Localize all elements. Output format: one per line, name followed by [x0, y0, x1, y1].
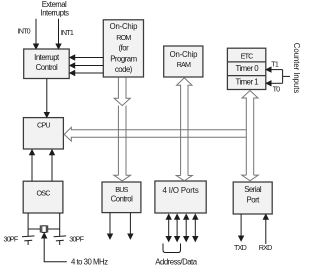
wire ROM to Interrupt Control arrow 1 — [70, 55, 103, 60]
svg-text:RAM: RAM — [177, 60, 191, 69]
svg-text:4 to 30 MHz: 4 to 30 MHz — [71, 258, 108, 267]
wire I/O port double arrow 3 — [184, 215, 189, 242]
svg-text:Control: Control — [36, 63, 58, 72]
svg-text:INT1: INT1 — [61, 28, 74, 37]
svg-text:30PF: 30PF — [69, 234, 84, 243]
svg-text:ROM: ROM — [116, 33, 131, 42]
svg-text:ETC: ETC — [241, 51, 254, 60]
wire INT0 arrow into Interrupt Control — [34, 19, 39, 49]
svg-text:OSC: OSC — [36, 189, 50, 198]
svg-text:Interrupts: Interrupts — [41, 8, 70, 17]
capacitor C1 left 30PF — [22, 229, 35, 245]
svg-text:RXD: RXD — [259, 243, 272, 252]
svg-text:Address/Data: Address/Data — [155, 257, 197, 266]
svg-text:code): code) — [115, 65, 133, 74]
svg-text:(for: (for — [119, 44, 130, 53]
block On-Chip RAM — [164, 46, 203, 77]
block BUS Control — [102, 182, 141, 213]
wire OSC left leg down — [27, 213, 29, 229]
bus hollow arrowhead down into 4 I/O Ports — [176, 176, 192, 181]
svg-text:INT0: INT0 — [18, 26, 31, 35]
svg-text:Program: Program — [110, 54, 136, 63]
svg-text:BUS: BUS — [115, 185, 128, 194]
block OSC — [23, 181, 63, 213]
svg-text:On-Chip: On-Chip — [170, 50, 198, 59]
bus hollow arrow into CPU (horizontal data bus) — [64, 127, 246, 141]
wire OSC right leg down — [59, 213, 61, 229]
label External Interrupts — [41, 0, 70, 17]
bus hollow arrowhead into BUS Control — [114, 175, 131, 181]
wire I/O port double arrow 2 — [175, 215, 180, 242]
bus hollow arrowhead down into Serial Port — [242, 175, 258, 181]
wire RXD input arrow — [263, 215, 268, 245]
svg-text:Control: Control — [111, 195, 133, 204]
wire BUS Control output arrow left — [108, 213, 113, 239]
wire counter-input bracket — [283, 70, 290, 84]
wire OSC to CPU arrow left — [30, 150, 35, 181]
wire BUS Control output arrow right — [128, 213, 133, 239]
crystal XTAL plates and body — [40, 225, 47, 232]
capacitor C2 right 30PF — [54, 229, 67, 245]
bracket under address/data arrows — [163, 244, 181, 253]
svg-text:T1: T1 — [271, 59, 279, 68]
wire INT1 arrow into Interrupt Control — [56, 19, 61, 49]
block Serial Port — [233, 182, 272, 214]
block On-Chip ROM — [103, 20, 143, 77]
block ETC / Timer 0 / Timer 1 — [227, 48, 265, 89]
svg-text:TXD: TXD — [234, 243, 247, 252]
wire I/O port double arrow 1 — [166, 215, 171, 242]
wire Interrupt Control to CPU — [44, 79, 49, 118]
bus hollow arrow up into ETC Timer block — [242, 91, 258, 176]
svg-text:CPU: CPU — [37, 120, 50, 129]
wire TXD output arrow — [239, 214, 244, 241]
svg-text:30PF: 30PF — [4, 234, 19, 243]
bus hollow arrow up into On-Chip RAM — [177, 78, 192, 176]
wire ROM to Interrupt Control arrow 2 — [70, 63, 103, 68]
svg-text:4 I/O Ports: 4 I/O Ports — [162, 186, 198, 195]
bus hollow pipe ROM down with mid arrowhead — [114, 78, 130, 176]
wire crystal horizontal line — [28, 228, 60, 230]
wire OSC to CPU arrow right — [50, 150, 55, 181]
svg-text:T0: T0 — [273, 85, 281, 94]
svg-text:On-Chip: On-Chip — [110, 22, 138, 31]
wire ROM to Interrupt Control arrow 3 — [70, 71, 103, 76]
block CPU — [23, 118, 63, 149]
wire T0 arrow into Timer 1 — [266, 81, 282, 86]
wire I/O port double arrow 4 — [193, 215, 198, 242]
svg-text:Serial: Serial — [244, 185, 262, 194]
wire T1 arrow into Timer 0 — [266, 67, 282, 72]
svg-text:Timer 1: Timer 1 — [235, 78, 258, 87]
svg-text:Interrupt: Interrupt — [34, 53, 60, 62]
wire crystal frequency input with up arrow — [42, 233, 67, 262]
block Interrupt Control — [24, 49, 69, 79]
block 4 I/O Ports — [155, 181, 206, 213]
svg-text:Timer 0: Timer 0 — [235, 64, 259, 73]
svg-text:Counter Inputs: Counter Inputs — [292, 43, 300, 94]
svg-text:Port: Port — [247, 195, 261, 204]
